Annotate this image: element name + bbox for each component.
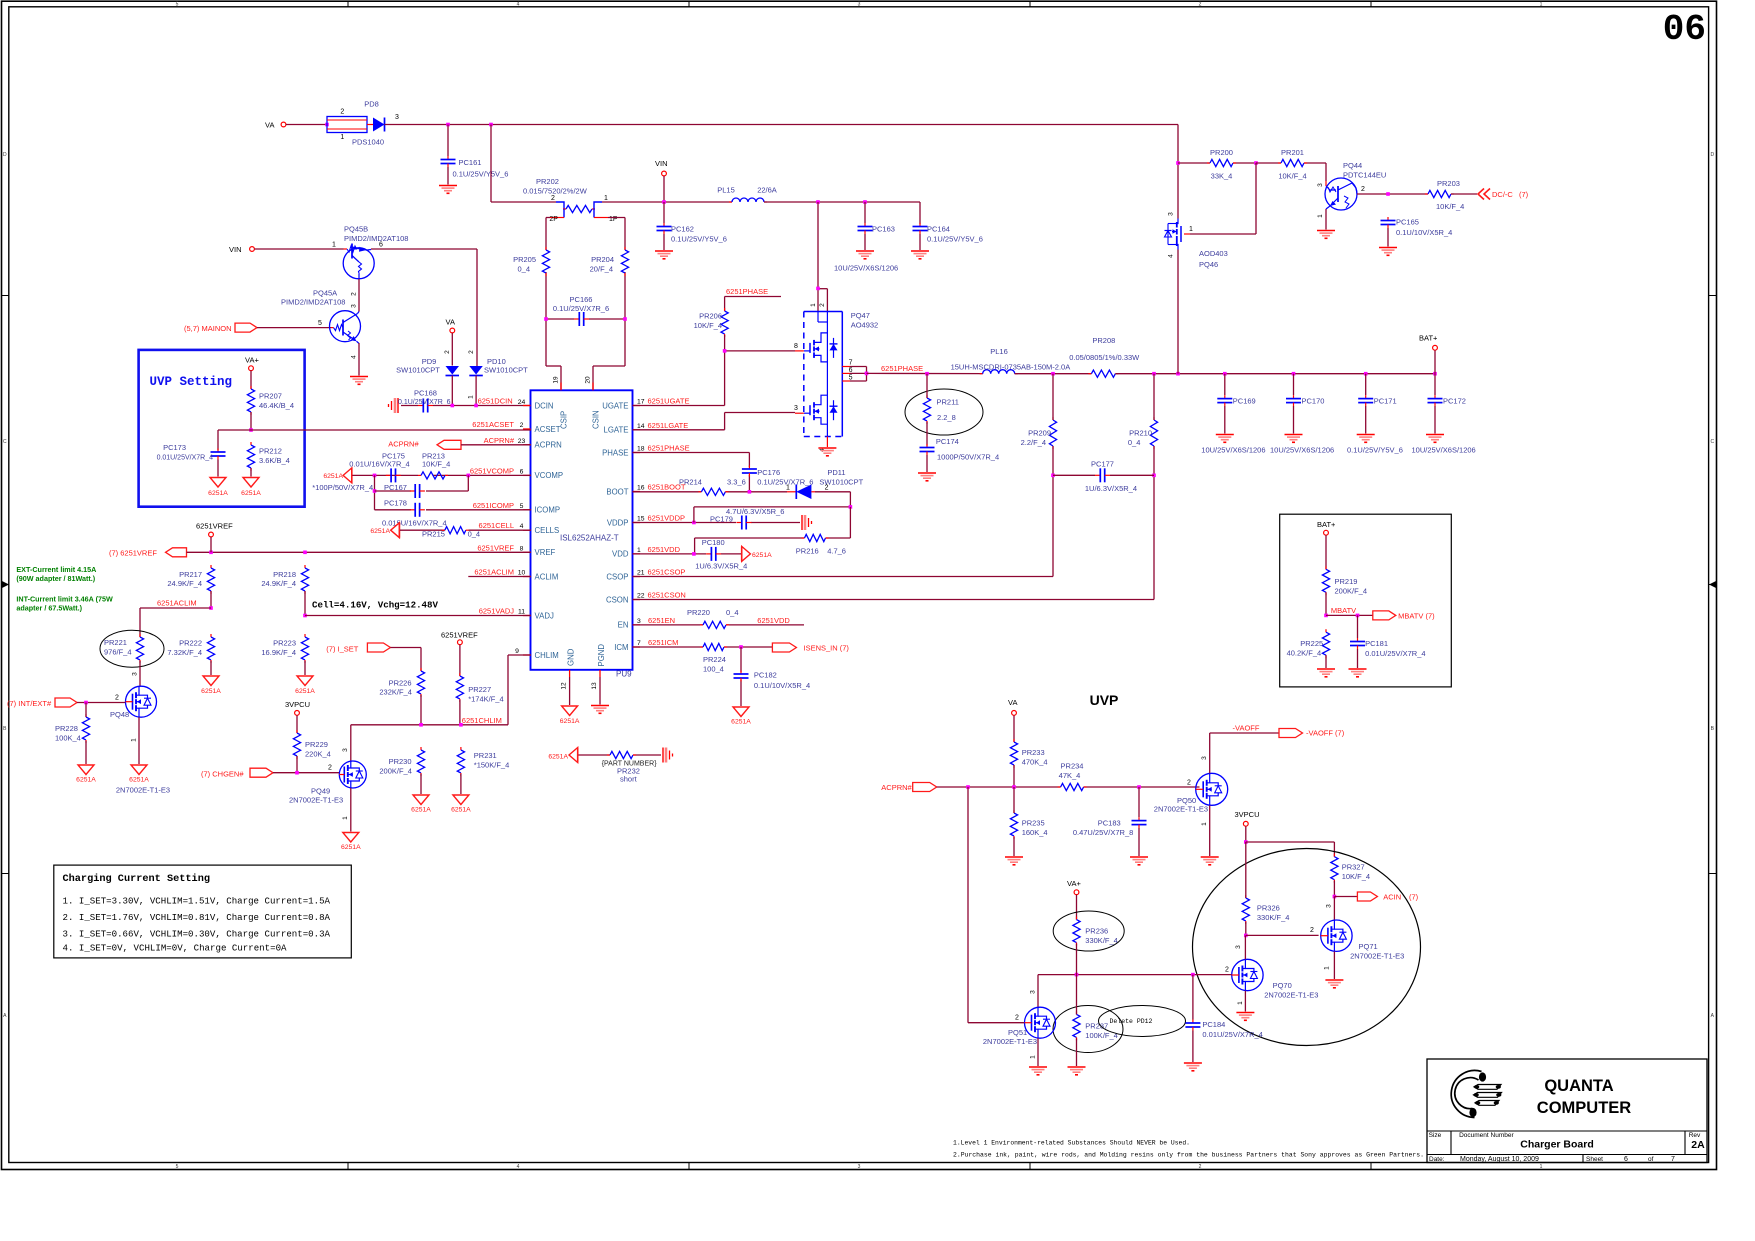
wire PQ71 source bbox=[1333, 951, 1335, 979]
node VIN junction bbox=[662, 200, 666, 204]
svg-text:PC166: PC166 bbox=[570, 295, 593, 304]
svg-text:(7) I_SET: (7) I_SET bbox=[326, 645, 359, 654]
wire PR222 lead bbox=[210, 661, 212, 675]
svg-text:PC171: PC171 bbox=[1374, 397, 1397, 406]
node PC167 j bbox=[373, 489, 377, 493]
wire PQ48 source bbox=[138, 717, 140, 764]
svg-text:1: 1 bbox=[1189, 226, 1193, 233]
node PC161 tap bbox=[446, 123, 450, 127]
svg-text:15: 15 bbox=[637, 516, 645, 523]
svg-text:ACPRN#: ACPRN# bbox=[388, 440, 419, 449]
wire VADJ wire bbox=[305, 615, 531, 617]
wire ICOMP row bbox=[375, 509, 532, 511]
wire BAT+2 lead bbox=[1325, 535, 1327, 569]
node VREF j2 bbox=[303, 551, 307, 555]
svg-text:PQ46: PQ46 bbox=[1199, 260, 1218, 269]
svg-text:1: 1 bbox=[1201, 822, 1208, 826]
svg-text:2.2_8: 2.2_8 bbox=[937, 413, 956, 422]
wire VA3 lead bbox=[1013, 715, 1015, 742]
capacitor PC177 bbox=[1085, 460, 1137, 494]
svg-text:2: 2 bbox=[1187, 780, 1191, 787]
svg-text:PR229: PR229 bbox=[305, 740, 328, 749]
node PR202 tap bbox=[489, 123, 493, 127]
svg-text:10U/25V/X6S/1206: 10U/25V/X6S/1206 bbox=[1412, 446, 1476, 455]
svg-text:COMPUTER: COMPUTER bbox=[1537, 1099, 1632, 1117]
svg-text:1: 1 bbox=[340, 134, 344, 141]
wire VDD wire bbox=[633, 553, 742, 555]
resistor PR223 bbox=[261, 634, 308, 663]
wire PQ70 gate row bbox=[1038, 974, 1232, 976]
wire PQ45B collector to PQ45A bbox=[358, 279, 360, 312]
resistor PR212 bbox=[247, 442, 289, 471]
svg-text:4: 4 bbox=[1168, 254, 1175, 258]
svg-text:D: D bbox=[1710, 152, 1714, 158]
wire PR225 lead bbox=[1325, 655, 1327, 668]
svg-text:6251LGATE: 6251LGATE bbox=[648, 421, 689, 430]
svg-text:6251CELL: 6251CELL bbox=[479, 521, 514, 530]
svg-text:4.7U/6.3V/X5R_6: 4.7U/6.3V/X5R_6 bbox=[726, 507, 784, 516]
svg-text:100K_4: 100K_4 bbox=[55, 734, 81, 743]
svg-text:6251VDD: 6251VDD bbox=[757, 616, 790, 625]
wire PR219 lead bbox=[1325, 592, 1327, 615]
svg-text:PQ45B: PQ45B bbox=[344, 225, 368, 234]
svg-text:LGATE: LGATE bbox=[604, 426, 629, 435]
svg-text:2A: 2A bbox=[1691, 1139, 1705, 1151]
power 6251A at PR222 bbox=[201, 676, 221, 695]
svg-text:PR208: PR208 bbox=[1092, 336, 1115, 345]
wire PQ45B emitter out bbox=[371, 249, 477, 366]
capacitor PC166 bbox=[553, 295, 609, 326]
ground at PC181 bbox=[1349, 668, 1367, 670]
svg-text:6251CHLIM: 6251CHLIM bbox=[462, 716, 502, 725]
svg-text:PQ45A: PQ45A bbox=[313, 289, 337, 298]
svg-text:3. I_SET=0.66V, VCHLIM=0.30V,: 3. I_SET=0.66V, VCHLIM=0.30V, Charge Cur… bbox=[63, 929, 331, 939]
svg-text:6: 6 bbox=[1624, 1156, 1628, 1163]
svg-text:PR223: PR223 bbox=[273, 639, 296, 648]
node PC166 left bbox=[544, 317, 548, 321]
wire PR207 to ACSET bbox=[250, 412, 252, 430]
wire CSON wire bbox=[633, 475, 1155, 599]
svg-text:PR205: PR205 bbox=[513, 255, 536, 264]
svg-text:ACPRN: ACPRN bbox=[535, 441, 562, 450]
svg-text:23: 23 bbox=[518, 438, 526, 445]
wire PR200 row bbox=[1178, 162, 1256, 164]
wire 2P tap bbox=[546, 218, 561, 391]
svg-text:PC163: PC163 bbox=[872, 225, 895, 234]
svg-text:0.01U/16V/X7R_4: 0.01U/16V/X7R_4 bbox=[349, 459, 409, 468]
svg-text:7: 7 bbox=[849, 360, 853, 367]
wire 3VPCU row bbox=[1246, 842, 1335, 857]
svg-text:1: 1 bbox=[1324, 966, 1331, 970]
svg-text:PQ51: PQ51 bbox=[1008, 1028, 1027, 1037]
svg-text:21: 21 bbox=[637, 570, 645, 577]
svg-text:470K_4: 470K_4 bbox=[1022, 758, 1048, 767]
svg-text:0.1U/25V/Y5V_6: 0.1U/25V/Y5V_6 bbox=[671, 235, 727, 244]
svg-text:330K/F_4: 330K/F_4 bbox=[1257, 913, 1290, 922]
svg-text:5: 5 bbox=[318, 320, 322, 327]
power 6251A at GND bbox=[560, 706, 580, 725]
wire PR235 lead bbox=[1013, 787, 1015, 856]
svg-text:5: 5 bbox=[520, 503, 524, 510]
ground at PC165 bbox=[1379, 247, 1397, 249]
wire PC165 lead bbox=[1387, 228, 1389, 247]
svg-text:40.2K/F_4: 40.2K/F_4 bbox=[1287, 649, 1322, 658]
svg-text:10U/25V/X6S/1206: 10U/25V/X6S/1206 bbox=[1270, 446, 1334, 455]
node pin8 j bbox=[723, 349, 727, 353]
wire CHGEN wire bbox=[273, 772, 340, 774]
net ACPRN# flag 2 bbox=[881, 783, 936, 793]
svg-text:PQ70: PQ70 bbox=[1273, 981, 1292, 990]
label INT current limit bbox=[16, 595, 113, 613]
svg-text:6251A: 6251A bbox=[560, 718, 580, 725]
svg-text:PR217: PR217 bbox=[179, 570, 202, 579]
svg-text:6251A: 6251A bbox=[241, 490, 261, 497]
svg-text:4.7_6: 4.7_6 bbox=[827, 547, 846, 556]
node PC166 right bbox=[623, 317, 627, 321]
ground at PC184 bbox=[1184, 1062, 1202, 1064]
capacitor PC165 bbox=[1381, 217, 1453, 237]
svg-text:200K/F_4: 200K/F_4 bbox=[379, 767, 412, 776]
net 6251VREF flag bbox=[109, 548, 187, 558]
wire LGATE wire bbox=[633, 413, 796, 430]
svg-text:6251DCIN: 6251DCIN bbox=[478, 397, 513, 406]
svg-text:3: 3 bbox=[342, 748, 349, 752]
node INTEXT j bbox=[84, 701, 88, 705]
svg-text:PR210: PR210 bbox=[1129, 429, 1152, 438]
svg-text:3: 3 bbox=[858, 1164, 861, 1170]
svg-text:CSON: CSON bbox=[606, 595, 629, 604]
svg-text:24.9K/F_4: 24.9K/F_4 bbox=[261, 579, 296, 588]
svg-text:PR233: PR233 bbox=[1022, 748, 1045, 757]
node ACIN j bbox=[1333, 895, 1337, 899]
node PQ71 gate j bbox=[1244, 934, 1248, 938]
wire PR228 lead bbox=[85, 703, 87, 765]
power 6251A at PQ48 bbox=[129, 765, 149, 784]
svg-text:*150K/F_4: *150K/F_4 bbox=[474, 761, 509, 770]
node PC169 j bbox=[1223, 372, 1227, 376]
svg-text:3: 3 bbox=[1201, 756, 1208, 760]
svg-text:PHASE: PHASE bbox=[602, 448, 628, 457]
resistor PR226 bbox=[379, 668, 424, 697]
node DCIN j2 bbox=[474, 404, 478, 408]
svg-text:6251ACLIM: 6251ACLIM bbox=[474, 568, 514, 577]
svg-text:(7) CHGEN#: (7) CHGEN# bbox=[201, 770, 244, 779]
svg-text:UVP: UVP bbox=[1090, 692, 1119, 708]
svg-text:200K/F_4: 200K/F_4 bbox=[1335, 587, 1368, 596]
svg-text:11: 11 bbox=[518, 609, 525, 616]
svg-text:2.Purchase ink, paint, wire ro: 2.Purchase ink, paint, wire rods, and Mo… bbox=[953, 1151, 1424, 1159]
capacitor PC168 bbox=[398, 389, 451, 413]
big ellipse UVP bbox=[1193, 849, 1421, 1046]
svg-text:2: 2 bbox=[115, 695, 119, 702]
net INT/EXT# flag bbox=[7, 698, 77, 708]
svg-text:PC165: PC165 bbox=[1396, 218, 1419, 227]
svg-text:PL16: PL16 bbox=[990, 347, 1008, 356]
wire VDDP wire bbox=[633, 522, 801, 524]
svg-text:5: 5 bbox=[176, 1164, 179, 1170]
svg-text:6251A: 6251A bbox=[752, 552, 772, 559]
svg-text:(7) INT/EXT#: (7) INT/EXT# bbox=[7, 699, 52, 708]
wire PC170 leads bbox=[1293, 374, 1295, 434]
svg-text:0.05/0805/1%/0.33W: 0.05/0805/1%/0.33W bbox=[1069, 353, 1140, 362]
svg-text:1. I_SET=3.30V, VCHLIM=1.51V,: 1. I_SET=3.30V, VCHLIM=1.51V, Charge Cur… bbox=[63, 897, 331, 907]
ground agnd at PR232 bbox=[662, 748, 664, 763]
node PR200 j bbox=[1176, 161, 1180, 165]
svg-text:PR225: PR225 bbox=[1300, 639, 1323, 648]
svg-text:0.1U/10V/X5R_4: 0.1U/10V/X5R_4 bbox=[754, 681, 810, 690]
net ACIN flag bbox=[1357, 892, 1418, 902]
wire ACLIM wire bbox=[468, 576, 531, 578]
svg-text:VCOMP: VCOMP bbox=[535, 471, 564, 480]
svg-text:VIN: VIN bbox=[229, 245, 242, 254]
svg-text:PR203: PR203 bbox=[1437, 179, 1460, 188]
svg-text:PC180: PC180 bbox=[702, 538, 725, 547]
svg-text:CHLIM: CHLIM bbox=[535, 651, 559, 660]
svg-text:2N7002E-T1-E3: 2N7002E-T1-E3 bbox=[983, 1037, 1037, 1046]
svg-text:C: C bbox=[3, 439, 7, 445]
svg-text:6251VDDP: 6251VDDP bbox=[648, 514, 686, 523]
title block bbox=[1427, 1059, 1707, 1163]
resistor PR201 bbox=[1278, 148, 1307, 181]
capacitor PC178 bbox=[382, 499, 447, 528]
svg-text:PR235: PR235 bbox=[1022, 819, 1045, 828]
wire ISET wire bbox=[390, 648, 421, 672]
svg-text:-VAOFF: -VAOFF bbox=[1233, 724, 1260, 733]
node 3VPCU j bbox=[1244, 840, 1248, 844]
svg-text:Sheet: Sheet bbox=[1586, 1156, 1603, 1163]
resistor PR236 bbox=[1053, 911, 1124, 951]
node PC171 j bbox=[1364, 372, 1368, 376]
resistor PR213 bbox=[418, 452, 450, 479]
svg-text:Size: Size bbox=[1429, 1132, 1442, 1139]
MBATV box bbox=[1280, 514, 1452, 687]
svg-text:22: 22 bbox=[637, 593, 645, 600]
wire PQ49 source bbox=[350, 788, 352, 832]
svg-text:15UH-MSCDRI-0735AB-150M-2.0A: 15UH-MSCDRI-0735AB-150M-2.0A bbox=[951, 363, 1071, 372]
svg-text:3: 3 bbox=[1235, 945, 1242, 949]
svg-text:14: 14 bbox=[637, 423, 645, 430]
svg-text:PC176: PC176 bbox=[757, 468, 780, 477]
power 6251A at PC182 bbox=[731, 707, 751, 726]
svg-text:C: C bbox=[1710, 439, 1714, 445]
ground agnd at PC168 bbox=[397, 398, 399, 413]
port VA bbox=[265, 121, 286, 130]
svg-text:4: 4 bbox=[520, 523, 524, 530]
wire PC162 leads bbox=[663, 202, 665, 250]
wire PC173 lead bbox=[217, 460, 219, 477]
svg-text:-VAOFF (7): -VAOFF (7) bbox=[1306, 729, 1345, 738]
svg-text:10K/F_4: 10K/F_4 bbox=[1342, 872, 1370, 881]
svg-text:*174K/F_4: *174K/F_4 bbox=[468, 695, 503, 704]
svg-text:16.9K/F_4: 16.9K/F_4 bbox=[261, 648, 296, 657]
svg-text:33K_4: 33K_4 bbox=[1211, 172, 1233, 181]
svg-text:PR209: PR209 bbox=[1028, 429, 1051, 438]
wire PR327 lead bbox=[1333, 881, 1335, 897]
svg-text:3: 3 bbox=[132, 672, 139, 676]
wire VA+2 lead bbox=[1076, 895, 1078, 920]
svg-text:1: 1 bbox=[1237, 1001, 1244, 1005]
svg-text:BAT+: BAT+ bbox=[1419, 334, 1438, 343]
svg-text:6251A: 6251A bbox=[295, 688, 315, 695]
svg-text:976/F_4: 976/F_4 bbox=[104, 648, 132, 657]
wire BAT+ lead bbox=[1434, 350, 1436, 373]
resistor PR222 bbox=[167, 634, 214, 663]
node CHLIM j1 bbox=[419, 723, 423, 727]
resistor PR229 bbox=[293, 730, 330, 759]
net -VAOFF flag bbox=[1233, 724, 1345, 738]
wire PQ51 source bbox=[1037, 1038, 1039, 1066]
svg-text:VA+: VA+ bbox=[1067, 879, 1081, 888]
svg-text:(90W adapter / 81Watt.): (90W adapter / 81Watt.) bbox=[16, 574, 95, 583]
svg-text:ACLIM: ACLIM bbox=[535, 572, 559, 581]
svg-text:1U/6.3V/X5R_4: 1U/6.3V/X5R_4 bbox=[1085, 484, 1137, 493]
svg-text:6251ICM: 6251ICM bbox=[648, 638, 678, 647]
UVP Setting box bbox=[139, 350, 305, 507]
diode PD9 SW1010CPT bbox=[396, 357, 459, 376]
svg-text:PC161: PC161 bbox=[459, 158, 482, 167]
svg-text:20: 20 bbox=[585, 376, 592, 384]
wire PC174 lead bbox=[926, 455, 928, 472]
svg-text:2. I_SET=1.76V, VCHLIM=0.81V,: 2. I_SET=1.76V, VCHLIM=0.81V, Charge Cur… bbox=[63, 913, 331, 923]
capacitor PC173 bbox=[157, 443, 226, 462]
capacitor PC179 bbox=[710, 507, 784, 530]
svg-text:7: 7 bbox=[637, 640, 641, 647]
svg-text:UGATE: UGATE bbox=[602, 401, 628, 410]
svg-text:2.2/F_4: 2.2/F_4 bbox=[1021, 438, 1046, 447]
pin labels PQ47 bbox=[794, 303, 853, 452]
node PQ70 gate j2 bbox=[1191, 973, 1195, 977]
port VA 2 bbox=[446, 318, 455, 333]
node VDD j bbox=[692, 552, 696, 556]
svg-text:EXT-Current limit 4.15A: EXT-Current limit 4.15A bbox=[16, 565, 96, 574]
svg-text:PR211: PR211 bbox=[937, 398, 959, 407]
svg-text:47K_4: 47K_4 bbox=[1059, 771, 1081, 780]
wire ACIN stub bbox=[1334, 896, 1357, 898]
net DC/-C offpage bbox=[1478, 189, 1529, 200]
svg-text:(7) 6251VREF: (7) 6251VREF bbox=[109, 549, 157, 558]
node PD8 pin junction bbox=[325, 123, 329, 127]
node BAT j bbox=[1433, 372, 1437, 376]
ground at PC163 bbox=[856, 250, 874, 252]
svg-text:18: 18 bbox=[637, 446, 645, 453]
resistor PR235 bbox=[1010, 810, 1047, 839]
node ACPRN j1 bbox=[966, 785, 970, 789]
svg-text:0.01U/25V/X7R_4: 0.01U/25V/X7R_4 bbox=[1365, 649, 1425, 658]
node BOOT j bbox=[748, 490, 752, 494]
svg-text:2: 2 bbox=[1015, 1015, 1019, 1022]
svg-text:0.1U/25V/Y5V_6: 0.1U/25V/Y5V_6 bbox=[453, 170, 509, 179]
svg-text:2: 2 bbox=[328, 765, 332, 772]
wire rail drop to PR202 bbox=[491, 125, 556, 203]
diode PD11 SW1010CPT bbox=[786, 468, 864, 499]
wire PL15 to PC164 bbox=[764, 202, 920, 224]
wire PQ47 feed wires bbox=[818, 202, 827, 311]
wire PC167 row bbox=[375, 490, 469, 492]
svg-text:VDD: VDD bbox=[612, 550, 629, 559]
svg-text:10: 10 bbox=[518, 570, 526, 577]
ground at PQ50 bbox=[1201, 856, 1219, 858]
svg-text:BAT+: BAT+ bbox=[1317, 520, 1336, 529]
wire PD10 to DCIN bbox=[475, 376, 477, 406]
wire PQ71 drain bbox=[1333, 897, 1335, 921]
svg-text:ICM: ICM bbox=[614, 643, 628, 652]
svg-text:6: 6 bbox=[520, 468, 524, 475]
svg-text:4. I_SET=0V, VCHLIM=0V, Charge: 4. I_SET=0V, VCHLIM=0V, Charge Current=0… bbox=[63, 944, 288, 954]
QUANTA COMPUTER text bbox=[1537, 1077, 1632, 1117]
svg-text:PR201: PR201 bbox=[1281, 148, 1304, 157]
wire UGATE wire bbox=[633, 351, 725, 406]
power 6251A at PR232 bbox=[548, 748, 577, 763]
wire VA+ to PR207 bbox=[250, 371, 252, 390]
svg-text:ACPRN#: ACPRN# bbox=[881, 783, 912, 792]
svg-text:6251A: 6251A bbox=[451, 807, 471, 814]
svg-text:1: 1 bbox=[1317, 214, 1324, 218]
wire VCOMP wire bbox=[352, 474, 531, 476]
net MAINON flag bbox=[184, 323, 257, 333]
svg-text:2N7002E-T1-E3: 2N7002E-T1-E3 bbox=[1264, 991, 1318, 1000]
svg-text:PGND: PGND bbox=[597, 644, 606, 667]
svg-text:3: 3 bbox=[1168, 212, 1175, 216]
wire ICM wire bbox=[633, 646, 773, 648]
svg-text:PR234: PR234 bbox=[1061, 762, 1084, 771]
net I_SET flag bbox=[326, 643, 390, 654]
resistor PR210 bbox=[1128, 417, 1158, 449]
svg-text:0_4: 0_4 bbox=[726, 608, 739, 617]
svg-text:PC182: PC182 bbox=[754, 671, 777, 680]
svg-text:PR222: PR222 bbox=[179, 639, 202, 648]
wire PD11 out bbox=[815, 492, 850, 507]
node VADJ junction bbox=[303, 614, 307, 618]
svg-text:PQ48: PQ48 bbox=[110, 710, 129, 719]
power 6251A at PR228 bbox=[76, 765, 96, 784]
svg-text:Cell=4.16V, Vchg=12.48V: Cell=4.16V, Vchg=12.48V bbox=[312, 600, 438, 611]
wire PR233 lead bbox=[1013, 765, 1015, 787]
svg-text:6251A: 6251A bbox=[370, 528, 390, 535]
svg-text:330K/F_4: 330K/F_4 bbox=[1085, 936, 1118, 945]
svg-text:CSOP: CSOP bbox=[606, 572, 628, 581]
diode PD8 PDS1040 bbox=[327, 100, 399, 147]
svg-text:DCIN: DCIN bbox=[535, 401, 554, 410]
notes text bbox=[953, 1140, 1424, 1160]
svg-text:PC172: PC172 bbox=[1443, 397, 1466, 406]
resistor PR233 bbox=[1010, 739, 1047, 768]
svg-text:2: 2 bbox=[340, 109, 344, 116]
node VDDP j2 bbox=[849, 505, 853, 509]
capacitor PC169 bbox=[1217, 395, 1255, 406]
resistor PR224 bbox=[700, 643, 727, 673]
inductor PL16 bbox=[951, 347, 1071, 374]
svg-text:24.9K/F_4: 24.9K/F_4 bbox=[167, 579, 202, 588]
wire PR202 out to VIN rail bbox=[602, 201, 732, 203]
svg-text:CSIN: CSIN bbox=[592, 410, 601, 429]
svg-text:3.3_6: 3.3_6 bbox=[727, 478, 746, 487]
ground agnd at PC179 bbox=[801, 515, 803, 530]
wire VIN drop bbox=[663, 176, 665, 202]
wire PR237 leads bbox=[1076, 975, 1078, 1066]
node ICM j bbox=[739, 645, 743, 649]
svg-text:0.1U/25V/X7R_6: 0.1U/25V/X7R_6 bbox=[553, 304, 609, 313]
capacitor PC167 bbox=[384, 483, 425, 498]
resistor PR230 bbox=[379, 747, 424, 776]
resistor PR209 bbox=[1021, 417, 1057, 449]
svg-text:VADJ: VADJ bbox=[535, 611, 554, 620]
node VCOMP j2 bbox=[467, 474, 471, 478]
svg-text:PR215: PR215 bbox=[422, 530, 445, 539]
wire PQ51 gate wire bbox=[968, 787, 1024, 1023]
svg-text:2N7002E-T1-E3: 2N7002E-T1-E3 bbox=[289, 796, 343, 805]
svg-text:0.1U/10V/X5R_4: 0.1U/10V/X5R_4 bbox=[1396, 228, 1452, 237]
svg-text:PC170: PC170 bbox=[1302, 397, 1325, 406]
